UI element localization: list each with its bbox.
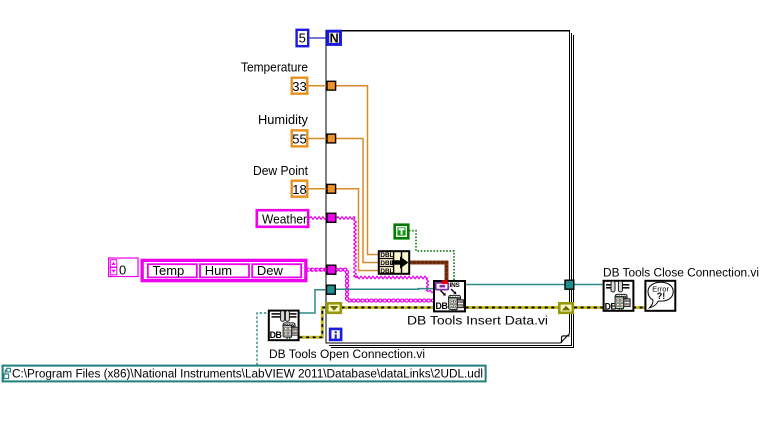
tunnel: connection refnum in (teal) xyxy=(327,285,336,294)
svg-text:Dew: Dew xyxy=(257,263,284,278)
wire: connection refnum tunnel to Insert VI (teal) xyxy=(335,288,434,291)
wire: error Close VI to error handler xyxy=(633,306,645,309)
wire: weather string inside loop to insert VI (wavy) xyxy=(336,217,355,220)
DB Tools Insert Data.vi xyxy=(434,281,465,311)
svg-text:DBL: DBL xyxy=(380,268,393,275)
svg-text:18: 18 xyxy=(292,182,306,197)
simple error handler (Error ?!) xyxy=(645,281,675,311)
build array node xyxy=(379,251,410,275)
array element Temp xyxy=(148,263,197,278)
page curl fold at loop bottom-right xyxy=(560,334,569,343)
wire: error left shift register to Insert VI xyxy=(342,306,434,309)
boolean TRUE constant xyxy=(395,225,409,239)
svg-text:Temp: Temp xyxy=(153,263,185,278)
wire: boolean TRUE constant to Insert VI (green dotted) xyxy=(409,231,454,281)
svg-text:33: 33 xyxy=(292,79,306,94)
wire: Humidity 55 to tunnel xyxy=(309,138,329,140)
for loop frame offset shadow 1 xyxy=(329,33,571,345)
wire: path constant to DB Tools Open Connection.vi (dashed teal) xyxy=(257,313,268,365)
svg-text:C:\Program Files (x86)\Nationa: C:\Program Files (x86)\National Instrume… xyxy=(12,367,483,381)
svg-text:DB: DB xyxy=(436,301,448,311)
svg-text:INS: INS xyxy=(450,282,461,289)
shift register right (up arrow) xyxy=(559,303,573,313)
wire: connection refnum Insert VI to right tunnel (teal) xyxy=(466,284,567,286)
DB Tools Open Connection.vi xyxy=(269,311,299,341)
wire: error Open VI up to left shift register (yellow/black) xyxy=(300,308,328,338)
wire: connection refnum right tunnel to Close VI (teal) xyxy=(573,284,603,286)
wire: error Insert VI to right shift register xyxy=(466,306,560,309)
DB Tools Close Connection.vi xyxy=(604,281,634,312)
array element Hum xyxy=(200,263,249,278)
tunnel: column names array (magenta) xyxy=(327,265,336,274)
svg-text:DBL: DBL xyxy=(380,252,393,259)
tunnel: Weather string (magenta) xyxy=(327,213,336,222)
wire: tunnel to build array input 2 xyxy=(336,139,380,263)
wire: tunnel to build array input 1 xyxy=(336,86,380,255)
numeric constant 33 xyxy=(292,78,308,94)
svg-text:DB Tools Open Connection.vi: DB Tools Open Connection.vi xyxy=(269,347,425,361)
wire: tunnel to build array input 3 xyxy=(336,189,380,271)
wire: Temperature 33 to tunnel xyxy=(309,85,329,87)
array element Dew xyxy=(252,263,301,278)
tunnel: Dew Point (orange) xyxy=(327,184,336,193)
svg-text:Humidity: Humidity xyxy=(258,112,308,127)
tunnel: Temperature (orange) xyxy=(327,81,336,90)
svg-text:0: 0 xyxy=(119,263,126,278)
path constant 2UDL.udl xyxy=(3,366,486,382)
for loop count terminal N xyxy=(328,31,341,45)
svg-text:Dew Point: Dew Point xyxy=(253,163,308,178)
svg-text:?!: ?! xyxy=(657,291,666,301)
wire: build array output to Insert VI (brown array) xyxy=(410,263,447,281)
svg-text:Weather: Weather xyxy=(262,211,308,226)
string constant Weather xyxy=(257,210,308,227)
wire: Weather string to tunnel (wavy) xyxy=(309,217,326,220)
coercion dot on Insert VI data input xyxy=(442,280,448,284)
wire: connection refnum Open VI to left tunnel (teal) xyxy=(300,290,328,313)
string array constant frame xyxy=(142,260,307,282)
for loop main border xyxy=(326,31,570,343)
array index display xyxy=(109,258,138,278)
wire: Dew Point 18 to tunnel xyxy=(309,188,329,190)
tunnel: connection refnum out (teal) xyxy=(565,280,574,289)
svg-text:N: N xyxy=(330,32,339,46)
svg-text:Hum: Hum xyxy=(205,263,232,278)
numeric constant 18 xyxy=(292,181,308,197)
wire: 5 to N count terminal xyxy=(309,37,328,39)
svg-text:DB Tools Close Connection.vi: DB Tools Close Connection.vi xyxy=(603,266,759,280)
wire: error right shift register to Close VI xyxy=(574,306,603,309)
numeric constant 55 xyxy=(292,130,308,146)
svg-text:Temperature: Temperature xyxy=(241,60,308,75)
svg-text:55: 55 xyxy=(292,132,306,147)
wire: string array constant to tunnel (beaded) xyxy=(308,269,327,271)
svg-text:5: 5 xyxy=(299,31,306,46)
wire: column names array inside loop to insert VI (beaded) xyxy=(336,270,434,301)
tunnel: Humidity (orange) xyxy=(327,134,336,143)
for loop frame offset shadow 2 xyxy=(331,35,573,347)
svg-text:DB Tools Insert Data.vi: DB Tools Insert Data.vi xyxy=(407,314,548,328)
svg-text:DB: DB xyxy=(270,330,282,340)
shift register left (down arrow) xyxy=(327,303,341,313)
for loop iteration terminal i xyxy=(330,329,341,340)
numeric constant 5 xyxy=(297,30,309,46)
